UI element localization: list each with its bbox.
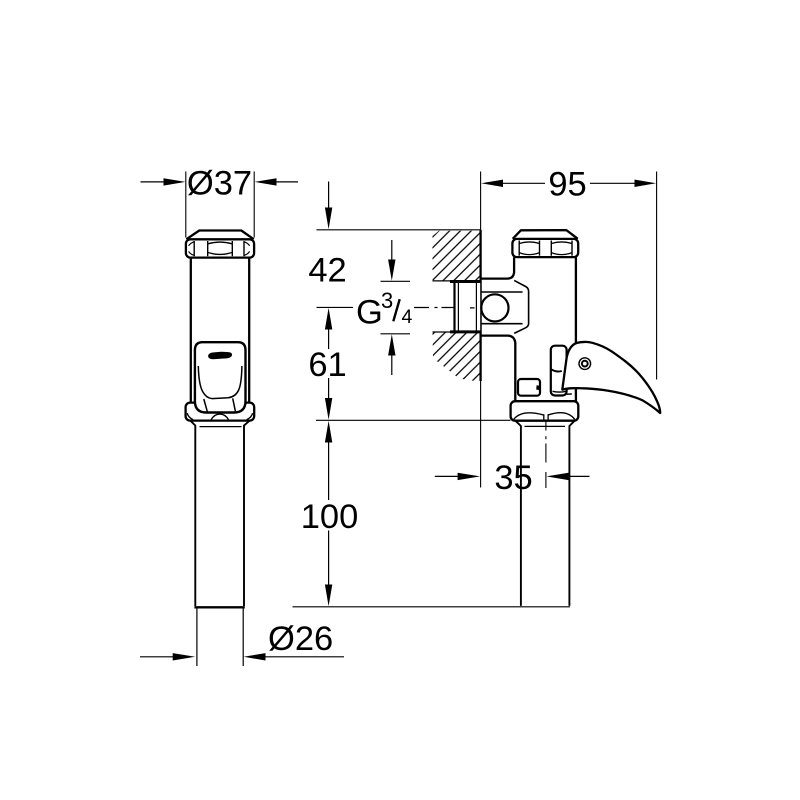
- svg-text:42: 42: [308, 252, 346, 290]
- svg-text:3: 3: [381, 288, 393, 313]
- right valve body right edge: [575, 257, 577, 401]
- lever bracket: [551, 346, 572, 396]
- GROHE logo engraving: [208, 352, 232, 360]
- dimension Ø37: [141, 164, 299, 202]
- left tailpipe upper: [191, 421, 250, 606]
- chain dimension extension line valve bottom: [316, 419, 511, 421]
- right tailpipe centerline: [545, 422, 547, 489]
- union nut chamfer profile: [514, 280, 528, 333]
- ball joint circle: [481, 294, 508, 321]
- right valve cap hex band: [512, 239, 578, 257]
- dimension 95: [481, 166, 656, 204]
- dimension 42: [308, 182, 346, 290]
- right valve lower flange: [481, 336, 516, 402]
- lever screw: [579, 358, 591, 370]
- G3/4 threaded fitting in wall: [450, 281, 481, 332]
- left valve body: [191, 258, 249, 402]
- svg-text:G: G: [356, 294, 383, 332]
- wall face line: [480, 172, 482, 488]
- G3/4 fitting dimension lines: [381, 240, 411, 375]
- dimension 100: [301, 421, 359, 607]
- dimension Ø37 extension lines: [186, 172, 254, 238]
- right valve lower hex nut: [511, 401, 579, 421]
- svg-text:Ø37: Ø37: [187, 164, 252, 202]
- wall hole edge lines: [433, 281, 455, 332]
- dimension 35: [435, 459, 590, 497]
- chain dimension extension line wall top: [317, 229, 481, 231]
- left pipe joint line: [194, 606, 244, 608]
- G3/4 label: [356, 288, 413, 331]
- dimension Ø26: [140, 620, 344, 661]
- small rectangle detail on body: [518, 379, 540, 396]
- svg-text:35: 35: [494, 459, 532, 497]
- wall hatch lower block: [433, 332, 481, 382]
- right valve upper flange: [481, 257, 514, 278]
- svg-text:4: 4: [402, 306, 413, 328]
- left valve lower hex nut: [186, 403, 255, 421]
- chain dimension extension line mid: [317, 306, 354, 308]
- flush lever (beak): [562, 342, 660, 413]
- G3/4 leader centerline: [414, 307, 475, 309]
- chain dimension extension line pipe end: [293, 606, 571, 608]
- svg-text:61: 61: [308, 346, 346, 384]
- left actuator button: [195, 342, 246, 412]
- wall hatch upper block: [433, 231, 481, 281]
- dimension 61: [308, 308, 346, 420]
- dimension 95 extension line right: [656, 172, 658, 380]
- right valve connection neck: [481, 292, 523, 324]
- left valve cap top face: [186, 231, 253, 240]
- svg-text:95: 95: [548, 166, 586, 204]
- svg-text:Ø26: Ø26: [268, 620, 333, 658]
- right valve cap top face: [513, 230, 578, 239]
- right tailpipe: [516, 421, 575, 606]
- left tailpipe lower: [197, 609, 243, 667]
- svg-text:100: 100: [301, 498, 359, 536]
- left valve cap hex band: [186, 239, 254, 257]
